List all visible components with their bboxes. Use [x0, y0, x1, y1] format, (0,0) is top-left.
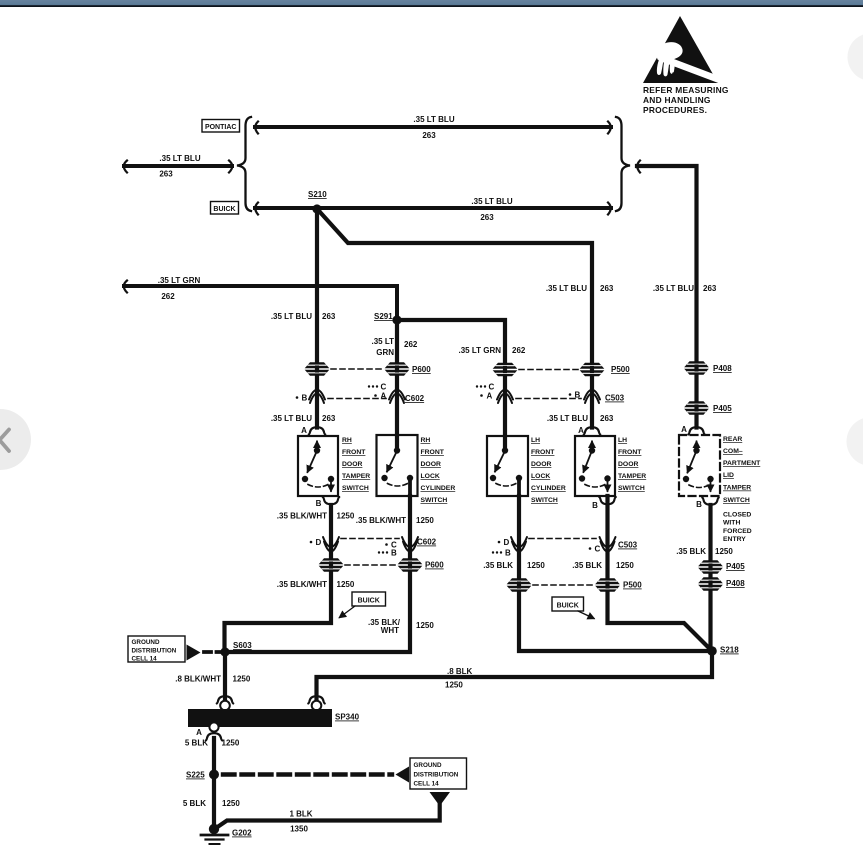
- svg-text:DISTRIBUTION: DISTRIBUTION: [414, 772, 459, 779]
- wire LH tamper to S218: [608, 496, 711, 649]
- svg-text:263: 263: [480, 213, 494, 222]
- label .35 BLK/WHT 1250 (above S603 corner): [277, 580, 355, 589]
- svg-text:CYLINDER: CYLINDER: [531, 485, 566, 492]
- svg-text:GRN: GRN: [376, 348, 394, 357]
- dashed wire S225 to ground distribution callout: [223, 772, 392, 776]
- svg-text:PARTMENT: PARTMENT: [723, 460, 761, 467]
- splice S210: [308, 190, 327, 214]
- svg-text:FRONT: FRONT: [421, 449, 445, 456]
- svg-text:D: D: [316, 538, 322, 547]
- svg-text:.35 LT BLU: .35 LT BLU: [471, 197, 512, 206]
- connector P405 (upper, rear): [684, 401, 732, 415]
- svg-text:TAMPER: TAMPER: [723, 485, 751, 492]
- label .35 BLK/WHT 1250 (RH lock lower): [356, 516, 435, 525]
- label .35 BLK/WHT 1250 (RH lock vertical): [368, 618, 434, 635]
- terminal cup at SP340 (right): [308, 696, 325, 703]
- svg-text:S603: S603: [233, 641, 252, 650]
- svg-text:SWITCH: SWITCH: [618, 485, 645, 492]
- svg-text:.35 LT BLU: .35 LT BLU: [413, 115, 454, 124]
- svg-text:DOOR: DOOR: [342, 461, 362, 468]
- svg-text:1250: 1250: [715, 547, 733, 556]
- SP340 bottom terminal A: [196, 722, 222, 740]
- svg-text:D: D: [504, 538, 510, 547]
- svg-text:C503: C503: [605, 394, 625, 403]
- svg-text:ENTRY: ENTRY: [723, 536, 746, 543]
- svg-text:.35 LT BLU: .35 LT BLU: [159, 154, 200, 163]
- svg-text:1250: 1250: [337, 512, 355, 521]
- svg-text:P600: P600: [412, 365, 431, 374]
- svg-text:CLOSED: CLOSED: [723, 512, 751, 519]
- svg-text:C503: C503: [618, 541, 638, 550]
- svg-text:.35 LT BLU: .35 LT BLU: [546, 284, 587, 293]
- label 5 BLK 1250 (upper): [185, 739, 240, 748]
- svg-text:263: 263: [703, 284, 717, 293]
- wire .35 LT GRN 262: [124, 281, 397, 319]
- label 5 BLK 1250 (lower): [183, 799, 240, 808]
- svg-text:1250: 1250: [233, 675, 251, 684]
- connector P408 (lower, rear): [698, 577, 745, 591]
- wire 1 BLK 1350 to ground: [215, 803, 440, 829]
- wire S291 down to RH lock cylinder switch: [395, 320, 399, 450]
- svg-text:.35 BLK: .35 BLK: [572, 561, 602, 570]
- svg-text:LH: LH: [618, 437, 627, 444]
- svg-text:GROUND: GROUND: [132, 639, 160, 646]
- splice pack SP340 bar: [188, 709, 360, 727]
- splice S225: [186, 770, 219, 780]
- svg-text:C: C: [489, 383, 495, 392]
- svg-text:REFER MEASURING: REFER MEASURING: [643, 85, 729, 95]
- svg-text:WITH: WITH: [723, 520, 740, 527]
- svg-text:B: B: [592, 501, 598, 510]
- svg-text:B: B: [575, 391, 581, 400]
- svg-text:1 BLK: 1 BLK: [289, 810, 312, 819]
- svg-text:262: 262: [404, 340, 418, 349]
- svg-text:CELL 14: CELL 14: [414, 781, 440, 788]
- label .35 BLK 1250 (rear lower): [676, 547, 733, 556]
- svg-text:PROCEDURES.: PROCEDURES.: [643, 105, 707, 115]
- label .35 BLK 1250 (LH lock lower): [483, 561, 545, 570]
- svg-text:P405: P405: [713, 404, 732, 413]
- svg-text:B: B: [302, 394, 308, 403]
- wire PONTIAC .35 LT BLU 263: [255, 122, 611, 134]
- splice S291: [374, 312, 402, 325]
- svg-text:S291: S291: [374, 312, 393, 321]
- svg-text:1250: 1250: [616, 561, 634, 570]
- svg-text:5 BLK: 5 BLK: [185, 739, 208, 748]
- ground G202: [201, 824, 252, 844]
- viewer forward button edge (right middle): [847, 417, 863, 466]
- wire S218 to SP340 (.8 BLK 1250): [317, 651, 713, 700]
- svg-text:.35 BLK/WHT: .35 BLK/WHT: [277, 580, 327, 589]
- svg-text:C602: C602: [417, 538, 437, 547]
- label .35 LT GRN 262 (RH lock wire): [371, 337, 417, 357]
- svg-text:.8 BLK/WHT: .8 BLK/WHT: [175, 675, 221, 684]
- switch RH front door lock cylinder: [377, 435, 418, 496]
- svg-text:B: B: [505, 549, 511, 558]
- connector P600 (upper, RH): [305, 362, 432, 376]
- svg-text:FRONT: FRONT: [531, 449, 555, 456]
- svg-text:262: 262: [512, 346, 526, 355]
- svg-text:G202: G202: [232, 829, 252, 838]
- BUICK tag box (top): [211, 202, 239, 215]
- svg-text:FRONT: FRONT: [618, 449, 642, 456]
- connector C503 (upper, LH): [476, 383, 625, 404]
- svg-text:.8 BLK: .8 BLK: [447, 667, 473, 676]
- svg-text:RH: RH: [342, 437, 352, 444]
- svg-text:.35 BLK: .35 BLK: [676, 547, 706, 556]
- svg-text:1350: 1350: [290, 825, 308, 834]
- ground distribution cell 14 callout (right): [396, 758, 467, 806]
- switch LH front door lock cylinder: [487, 436, 528, 496]
- connector P600 (lower, RH): [319, 558, 445, 572]
- wire BUICK .35 LT BLU 263: [255, 203, 611, 215]
- svg-text:S225: S225: [186, 771, 205, 780]
- svg-text:.35 LT: .35 LT: [371, 337, 394, 346]
- svg-text:5 BLK: 5 BLK: [183, 799, 206, 808]
- svg-text:CYLINDER: CYLINDER: [421, 485, 456, 492]
- ESD warning symbol (static-sensitive hand triangle): [642, 16, 722, 83]
- svg-text:BUICK: BUICK: [213, 206, 235, 213]
- svg-text:.35 LT BLU: .35 LT BLU: [271, 312, 312, 321]
- svg-text:A: A: [196, 728, 202, 737]
- svg-text:FRONT: FRONT: [342, 449, 366, 456]
- svg-text:FORCED: FORCED: [723, 528, 752, 535]
- BUICK callout (LH side): [552, 597, 594, 619]
- connector C602 (lower, RH): [310, 537, 437, 558]
- label .35 LT BLU 263 above LH tamper box: [547, 414, 614, 423]
- svg-text:BUICK: BUICK: [557, 603, 579, 610]
- svg-text:1250: 1250: [416, 516, 434, 525]
- svg-text:COM–: COM–: [723, 448, 743, 455]
- svg-text:1250: 1250: [222, 739, 240, 748]
- svg-text:PONTIAC: PONTIAC: [205, 124, 237, 131]
- splice S603: [220, 641, 252, 657]
- svg-text:GROUND: GROUND: [414, 762, 442, 769]
- svg-text:P408: P408: [726, 579, 745, 588]
- svg-text:LH: LH: [531, 437, 540, 444]
- svg-text:P405: P405: [726, 562, 745, 571]
- svg-text:C602: C602: [405, 394, 425, 403]
- svg-text:A: A: [487, 392, 493, 401]
- wire LH lock cylinder to S218: [519, 496, 706, 651]
- svg-text:P500: P500: [623, 581, 642, 590]
- label .35 LT GRN 262 (LH lock wire): [458, 346, 525, 355]
- svg-text:SWITCH: SWITCH: [723, 497, 750, 504]
- svg-text:1250: 1250: [445, 681, 463, 690]
- svg-text:SWITCH: SWITCH: [421, 497, 448, 504]
- svg-text:B: B: [316, 499, 322, 508]
- svg-text:CELL 14: CELL 14: [132, 656, 158, 663]
- svg-text:P500: P500: [611, 365, 630, 374]
- svg-text:A: A: [681, 425, 687, 434]
- svg-text:1250: 1250: [337, 580, 355, 589]
- svg-text:1250: 1250: [527, 561, 545, 570]
- svg-text:DOOR: DOOR: [421, 461, 441, 468]
- wire S291 branch to LH lock cylinder switch: [397, 320, 505, 450]
- label .35 LT BLU 263 (RH tamper wire): [271, 312, 336, 321]
- label .35 LT BLU 263 (rear column): [653, 284, 717, 293]
- connector C602 (upper, RH): [296, 383, 425, 404]
- svg-text:C: C: [595, 545, 601, 554]
- connector P405 (lower, rear): [698, 560, 745, 574]
- svg-text:.35 BLK/WHT: .35 BLK/WHT: [356, 516, 406, 525]
- label .35 LT BLU 263 (LH tamper column top): [546, 284, 614, 293]
- svg-text:A: A: [301, 426, 307, 435]
- wire RH lock cylinder to S603: [229, 496, 410, 652]
- BUICK callout (RH side): [340, 592, 386, 618]
- viewer back button (left edge): [0, 409, 31, 470]
- svg-text:RH: RH: [421, 437, 431, 444]
- svg-text:DOOR: DOOR: [618, 461, 638, 468]
- svg-text:LID: LID: [723, 472, 734, 479]
- svg-text:SP340: SP340: [335, 713, 360, 722]
- viewer page edge circle (right top): [848, 33, 863, 81]
- svg-text:TAMPER: TAMPER: [342, 473, 370, 480]
- wire S210 down to RH tamper switch: [315, 209, 319, 428]
- svg-text:SWITCH: SWITCH: [342, 485, 369, 492]
- svg-text:.35 LT BLU: .35 LT BLU: [653, 284, 694, 293]
- svg-text:263: 263: [422, 131, 436, 140]
- svg-text:LOCK: LOCK: [421, 473, 440, 480]
- label .35 BLK/WHT 1250 (below RH tamper): [277, 512, 355, 521]
- svg-text:1250: 1250: [222, 799, 240, 808]
- svg-text:.35 LT GRN: .35 LT GRN: [158, 276, 201, 285]
- switch RH front door tamper: [298, 426, 339, 508]
- wire RH tamper B to S603: [225, 505, 332, 652]
- svg-text:SWITCH: SWITCH: [531, 497, 558, 504]
- PONTIAC tag box: [202, 120, 240, 133]
- wire S225 to G202: [212, 779, 216, 824]
- wire SP340 to S225: [212, 738, 216, 770]
- connector P500 (upper, LH): [493, 363, 631, 377]
- svg-text:S210: S210: [308, 190, 327, 199]
- svg-text:WHT: WHT: [381, 626, 399, 635]
- svg-text:263: 263: [159, 170, 173, 179]
- switch LH front door tamper: [575, 426, 616, 510]
- svg-text:P408: P408: [713, 364, 732, 373]
- svg-text:263: 263: [600, 284, 614, 293]
- wire S603 down to SP340: [223, 652, 227, 700]
- svg-text:REAR: REAR: [723, 436, 742, 443]
- wire S210 diagonal to LH tamper column: [319, 211, 592, 428]
- switch rear compartment lid tamper (dashed box): [679, 425, 720, 509]
- splice S218: [707, 646, 739, 656]
- wire .35 LT BLU 263 (top left stub): [124, 161, 233, 173]
- svg-text:C: C: [381, 383, 387, 392]
- svg-text:A: A: [381, 392, 387, 401]
- svg-text:.35 BLK: .35 BLK: [483, 561, 513, 570]
- window title bar: [0, 0, 863, 7]
- svg-text:.35 LT BLU: .35 LT BLU: [547, 414, 588, 423]
- ground distribution cell 14 callout (left): [128, 636, 221, 663]
- terminal cup at SP340 (left): [217, 696, 234, 703]
- svg-text:262: 262: [161, 292, 175, 301]
- wire from brace to rear column: [637, 161, 697, 428]
- svg-text:A: A: [578, 426, 584, 435]
- svg-text:263: 263: [322, 312, 336, 321]
- svg-text:AND HANDLING: AND HANDLING: [643, 95, 711, 105]
- svg-text:.35 LT GRN: .35 LT GRN: [458, 346, 501, 355]
- svg-text:LOCK: LOCK: [531, 473, 550, 480]
- svg-text:BUICK: BUICK: [358, 598, 380, 605]
- svg-text:263: 263: [600, 414, 614, 423]
- label .8 BLK/WHT 1250 (S603 to SP340): [175, 675, 251, 684]
- svg-text:.35 LT BLU: .35 LT BLU: [271, 414, 312, 423]
- brace right: [616, 117, 630, 211]
- wire rear tamper B to S218: [708, 505, 712, 651]
- ESD note text: [643, 85, 729, 115]
- connector C503 (lower, LH): [492, 537, 638, 558]
- svg-text:263: 263: [322, 414, 336, 423]
- label .35 LT BLU 263 above RH tamper box: [271, 414, 336, 423]
- svg-text:B: B: [391, 549, 397, 558]
- brace left: [237, 117, 251, 211]
- svg-text:DOOR: DOOR: [531, 461, 551, 468]
- svg-text:DISTRIBUTION: DISTRIBUTION: [132, 648, 177, 655]
- svg-text:1250: 1250: [416, 621, 434, 630]
- svg-text:P600: P600: [425, 561, 444, 570]
- svg-text:B: B: [696, 500, 702, 509]
- svg-text:.35 BLK/WHT: .35 BLK/WHT: [277, 512, 327, 521]
- svg-text:S218: S218: [720, 646, 739, 655]
- svg-text:TAMPER: TAMPER: [618, 473, 646, 480]
- label .35 BLK 1250 (LH tamper lower): [572, 561, 634, 570]
- connector P500 (lower, LH): [507, 578, 643, 592]
- connector P408 (upper, rear): [684, 361, 732, 375]
